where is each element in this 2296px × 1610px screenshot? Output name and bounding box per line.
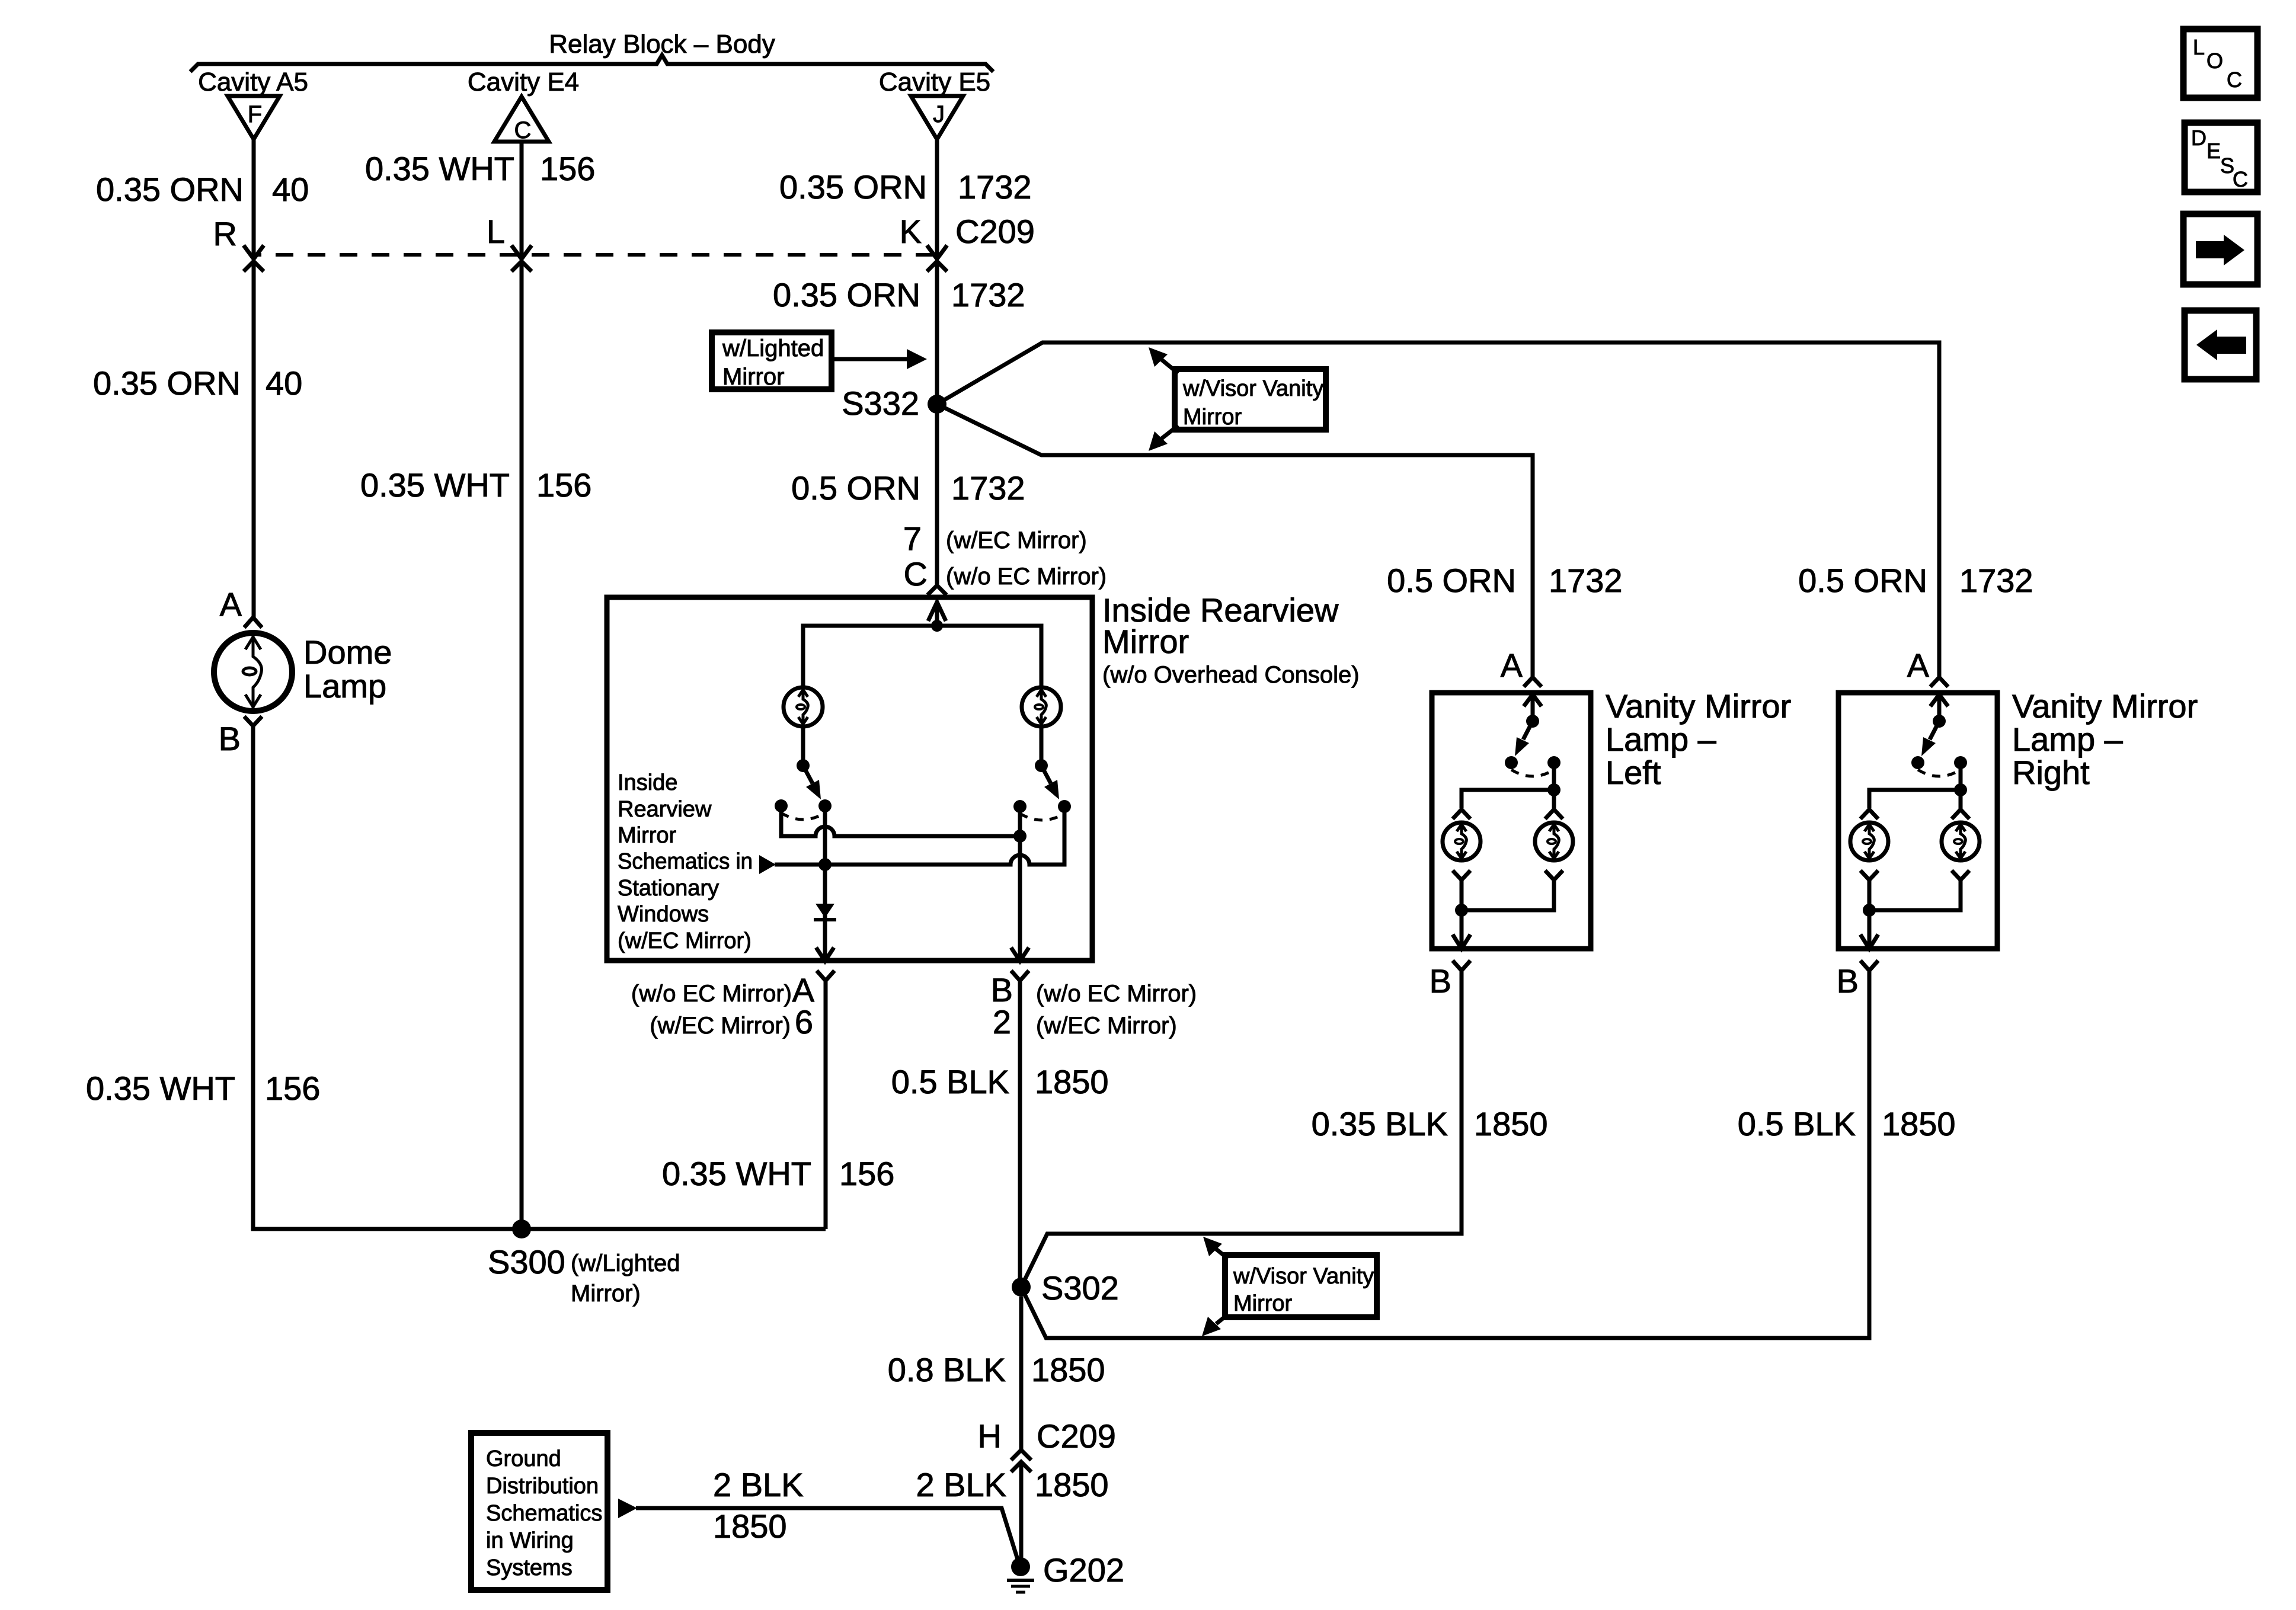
terminal chevron at mirror pin A xyxy=(817,971,834,981)
terminal chevron at mirror pin B xyxy=(1011,971,1029,981)
svg-text:(w/o EC Mirror): (w/o EC Mirror) xyxy=(631,981,792,1007)
svg-text:2 BLK: 2 BLK xyxy=(916,1466,1006,1503)
wire right bulb to bottom bus xyxy=(1869,880,1961,910)
wire right switch left contact down to pin B exit xyxy=(1018,806,1022,960)
wire from cavity A5/F down to connector C209 pin R xyxy=(252,139,256,258)
exit arrow inside box at pin B xyxy=(1011,948,1029,961)
bus to left bulb xyxy=(1462,790,1554,808)
svg-text:E: E xyxy=(2207,139,2221,163)
wire junction to exit B xyxy=(1460,910,1464,946)
svg-text:D: D xyxy=(2191,126,2207,150)
svg-text:0.5 ORN: 0.5 ORN xyxy=(1798,562,1927,599)
icon button LOC xyxy=(2183,29,2257,98)
svg-text:(w/o Overhead Console): (w/o Overhead Console) xyxy=(1102,662,1360,688)
vanity left internals xyxy=(1443,694,1573,949)
internal junction dot xyxy=(931,620,943,632)
entry arrow inside vanity left xyxy=(1524,694,1542,706)
svg-text:w/Visor Vanity: w/Visor Vanity xyxy=(1233,1264,1374,1289)
junction dot xyxy=(1547,783,1560,796)
svg-text:(w/Lighted: (w/Lighted xyxy=(571,1250,680,1276)
terminal chevron vanity left pin B xyxy=(1453,961,1470,971)
svg-text:1850: 1850 xyxy=(1035,1063,1109,1100)
left switch dashed arc xyxy=(781,813,825,820)
svg-text:0.35 BLK: 0.35 BLK xyxy=(1312,1105,1448,1142)
connector arrow at R (C209) xyxy=(244,245,264,259)
svg-text:1732: 1732 xyxy=(951,276,1025,313)
component box Inside Rearview Mirror xyxy=(607,597,1092,961)
svg-text:0.5 ORN: 0.5 ORN xyxy=(1387,562,1516,599)
callout box w/Visor Vanity Mirror (lower) xyxy=(1225,1255,1377,1317)
svg-text:Lamp: Lamp xyxy=(303,667,386,705)
switch contact dots xyxy=(1505,756,1518,769)
svg-text:C209: C209 xyxy=(1037,1417,1116,1455)
terminal chevron below right bulb xyxy=(1545,870,1563,880)
svg-text:0.5 BLK: 0.5 BLK xyxy=(1738,1105,1856,1142)
terminal chevron above left bulb xyxy=(1860,809,1878,819)
wire right contact down to junction xyxy=(1959,763,1963,790)
svg-text:1850: 1850 xyxy=(1882,1105,1956,1142)
svg-text:0.8 BLK: 0.8 BLK xyxy=(888,1351,1006,1388)
ground symbol G202 xyxy=(1007,1579,1034,1582)
svg-text:A: A xyxy=(220,585,242,623)
icon button forward arrow xyxy=(2183,214,2257,284)
svg-text:1850: 1850 xyxy=(713,1507,787,1545)
svg-text:Vanity Mirror: Vanity Mirror xyxy=(2012,687,2198,725)
connector chevron below L xyxy=(511,261,532,271)
svg-text:0.5 ORN: 0.5 ORN xyxy=(791,469,920,507)
svg-text:0.35 ORN: 0.35 ORN xyxy=(773,276,920,313)
svg-text:K: K xyxy=(900,213,922,250)
entry arrow inside mirror box at pin C xyxy=(928,602,946,621)
arrow from w/Lighted Mirror box to wire xyxy=(832,357,908,361)
svg-text:R: R xyxy=(213,215,237,252)
right switch dashed arc xyxy=(1020,814,1064,820)
junction dot bus1 / right switch left contact wire xyxy=(1013,830,1027,843)
switch pivot dot xyxy=(1933,715,1946,728)
terminal chevron above left bulb xyxy=(1453,809,1470,819)
wire right bulb to bottom bus xyxy=(1462,880,1554,910)
svg-text:F: F xyxy=(248,101,262,127)
connector arrow at K (C209) xyxy=(927,245,947,259)
svg-text:J: J xyxy=(933,101,945,127)
bottom junction dot xyxy=(1863,904,1876,917)
exit arrow inside vanity left xyxy=(1453,934,1470,949)
terminal chevron at dome lamp pin A xyxy=(244,617,262,628)
arrow from ground distribution box xyxy=(618,1499,637,1518)
svg-text:Cavity E4: Cavity E4 xyxy=(468,68,579,97)
svg-text:Right: Right xyxy=(2012,754,2090,791)
svg-text:Stationary: Stationary xyxy=(618,876,719,901)
wire from C209 L down to splice S300 xyxy=(520,261,524,1229)
svg-text:0.35 ORN: 0.35 ORN xyxy=(93,364,241,402)
svg-text:40: 40 xyxy=(266,364,302,402)
svg-text:C: C xyxy=(2233,167,2248,191)
wire branch from S332 up-right to vanity mirror lamp right xyxy=(937,343,1939,677)
wire junction to exit B xyxy=(1868,910,1872,946)
wire from cavity E4/C down to connector C209 pin L xyxy=(520,142,524,258)
svg-text:2: 2 xyxy=(993,1003,1011,1041)
mirror lamp bulb right xyxy=(1022,687,1061,726)
connector triangle J (Relay Block cavity E5) xyxy=(911,96,963,139)
svg-text:S332: S332 xyxy=(842,385,919,422)
connector arrow at L (C209) xyxy=(511,245,532,259)
arrow from upper w/Visor box to lower branch xyxy=(1162,425,1178,438)
svg-text:L: L xyxy=(2193,35,2205,59)
svg-text:156: 156 xyxy=(536,466,591,504)
svg-text:Mirror: Mirror xyxy=(618,823,677,848)
svg-text:Schematics in: Schematics in xyxy=(618,849,753,874)
wire entry to switch pivot xyxy=(1937,696,1942,721)
switch arm with arrowhead xyxy=(1930,721,1939,740)
connector triangle F (Relay Block cavity A5) xyxy=(228,96,280,139)
svg-text:G202: G202 xyxy=(1043,1551,1124,1589)
svg-text:B: B xyxy=(219,720,241,757)
svg-text:B: B xyxy=(1837,962,1859,1000)
svg-text:Mirror: Mirror xyxy=(1102,623,1189,660)
svg-text:156: 156 xyxy=(265,1070,320,1107)
svg-text:6: 6 xyxy=(795,1003,813,1041)
component box Vanity Mirror Lamp - Right xyxy=(1838,693,1997,949)
svg-text:1850: 1850 xyxy=(1474,1105,1548,1142)
wire from S300 up to inside rearview mirror pin A xyxy=(824,981,828,1229)
svg-text:1850: 1850 xyxy=(1035,1466,1109,1503)
svg-text:C: C xyxy=(904,555,928,593)
right switch pivot dot xyxy=(1035,759,1048,772)
svg-text:Ground: Ground xyxy=(486,1446,561,1471)
wire C209 H down to ground G202 xyxy=(1019,1462,1024,1561)
wire branch from S332 down-right to vanity mirror lamp left xyxy=(937,404,1533,677)
wire pin C to internal junction xyxy=(935,602,939,626)
switch dashed arc xyxy=(1918,770,1961,776)
connector chevron below R xyxy=(244,261,264,271)
svg-text:in Wiring: in Wiring xyxy=(486,1528,574,1553)
vanity right bulb 1 xyxy=(1850,822,1888,860)
arrow from lower w/Visor box to upper branch xyxy=(1216,1249,1228,1259)
terminal chevron vanity right pin A xyxy=(1930,677,1948,687)
terminal chevron above right bulb xyxy=(1545,809,1563,819)
svg-text:Lamp –: Lamp – xyxy=(2012,721,2124,758)
vanity right bulb 2 xyxy=(1942,822,1980,860)
triangle arrow feeding bus 2 (schematics reference) xyxy=(759,855,776,874)
wire S302 down to connector C209 pin H xyxy=(1019,1297,1024,1449)
wire 2 BLK from ground box to G202 xyxy=(636,1508,1019,1563)
vanity left bulb 2 xyxy=(1535,822,1573,860)
wire from S332 down to inside rearview mirror pin C xyxy=(935,404,939,585)
svg-text:Vanity Mirror: Vanity Mirror xyxy=(1606,687,1791,725)
svg-text:Rearview: Rearview xyxy=(618,797,712,822)
svg-text:(w/EC Mirror): (w/EC Mirror) xyxy=(650,1013,791,1039)
svg-text:1732: 1732 xyxy=(1959,562,2033,599)
switch contact dots xyxy=(1911,756,1924,769)
terminal chevron vanity right pin B xyxy=(1860,961,1878,971)
svg-text:156: 156 xyxy=(540,150,595,187)
brace bracket over relay block cavities xyxy=(190,55,993,72)
wire from C209 K down to splice S332 xyxy=(935,261,939,404)
exit arrow inside box at pin A xyxy=(816,948,834,961)
icon button DESC xyxy=(2185,123,2257,192)
svg-text:S302: S302 xyxy=(1041,1269,1119,1307)
svg-text:0.5 BLK: 0.5 BLK xyxy=(891,1063,1009,1100)
svg-text:Cavity A5: Cavity A5 xyxy=(198,68,308,97)
arrow from lower w/Visor box to lower branch xyxy=(1216,1314,1228,1324)
connector chevrons at H (C209) xyxy=(1011,1450,1031,1460)
svg-text:H: H xyxy=(978,1417,1002,1455)
bottom junction dot xyxy=(1455,904,1468,917)
svg-text:0.35 WHT: 0.35 WHT xyxy=(360,466,510,504)
svg-text:(w/o EC Mirror): (w/o EC Mirror) xyxy=(946,564,1107,590)
svg-text:C209: C209 xyxy=(955,213,1035,250)
svg-text:C: C xyxy=(2227,68,2242,92)
callout box w/Lighted Mirror xyxy=(712,332,832,390)
component box Vanity Mirror Lamp - Left xyxy=(1432,693,1591,949)
component box Ground Distribution Schematics in Wiring Systems xyxy=(471,1433,607,1590)
wire right contact down to junction xyxy=(1552,763,1556,790)
svg-text:A: A xyxy=(1907,646,1930,684)
connector C209 dashed line xyxy=(253,253,937,257)
svg-text:Mirror: Mirror xyxy=(1183,405,1242,430)
internal text block: Inside Rearview Mirror Schematics in Stationary Windows (w/EC Mirror) xyxy=(618,770,753,953)
splice S302 junction dot xyxy=(1012,1278,1031,1297)
entry arrow inside vanity right xyxy=(1930,694,1948,706)
wire junction to right bulb chevron xyxy=(1959,790,1963,809)
wire entry to switch pivot xyxy=(1531,696,1535,721)
svg-text:(w/EC Mirror): (w/EC Mirror) xyxy=(1036,1013,1177,1039)
connector triangle C (Relay Block cavity E4) xyxy=(494,97,549,142)
exit arrow inside vanity right xyxy=(1860,934,1878,949)
junction dot bus2 / left switch right contact wire xyxy=(818,858,832,871)
wire left switch right contact down through diode to pin A exit xyxy=(823,806,827,960)
svg-text:(w/EC Mirror): (w/EC Mirror) xyxy=(618,929,752,953)
svg-text:w/Lighted: w/Lighted xyxy=(722,335,824,361)
svg-text:0.35 WHT: 0.35 WHT xyxy=(365,150,514,187)
svg-text:Windows: Windows xyxy=(618,902,709,927)
svg-text:C: C xyxy=(514,117,532,143)
vanity left bulb 1 xyxy=(1443,822,1480,860)
terminal chevron at dome lamp pin B xyxy=(244,716,262,726)
svg-text:Dome: Dome xyxy=(303,633,392,671)
wire left bulb to bottom junction xyxy=(1868,880,1872,910)
diode on pin A wire xyxy=(816,904,834,918)
switch arm with arrowhead xyxy=(1523,721,1533,740)
svg-text:Mirror): Mirror) xyxy=(571,1281,641,1307)
right switch arm with arrowhead xyxy=(1041,766,1051,783)
wire from cavity E5/J down to connector C209 pin K xyxy=(935,139,939,258)
wire from C209 R down to dome lamp pin A xyxy=(252,261,256,617)
vanity right internals xyxy=(1850,694,1980,949)
left switch pivot dot xyxy=(797,759,810,772)
callout box w/Visor Vanity Mirror (upper) xyxy=(1175,369,1326,430)
switch pivot dot xyxy=(1526,715,1539,728)
svg-text:Left: Left xyxy=(1606,754,1661,791)
svg-text:Cavity E5: Cavity E5 xyxy=(879,68,990,97)
terminal chevron above right bulb xyxy=(1952,809,1969,819)
svg-text:2 BLK: 2 BLK xyxy=(713,1466,804,1503)
svg-text:Inside: Inside xyxy=(618,770,677,795)
terminal chevron vanity left pin A xyxy=(1524,677,1542,687)
wire bulb right to switch pivot xyxy=(1040,726,1044,766)
svg-text:0.35 WHT: 0.35 WHT xyxy=(662,1155,811,1192)
wire vanity left pin B down and left to splice S302 xyxy=(1021,971,1462,1287)
wire vanity right pin B down and left to splice S302 xyxy=(1021,971,1869,1338)
svg-text:Lamp –: Lamp – xyxy=(1606,721,1717,758)
svg-text:Systems: Systems xyxy=(486,1555,573,1580)
svg-text:156: 156 xyxy=(839,1155,894,1192)
svg-text:0.35 WHT: 0.35 WHT xyxy=(86,1070,235,1107)
terminal chevron below left bulb xyxy=(1453,870,1470,880)
svg-text:1732: 1732 xyxy=(951,469,1025,507)
svg-text:40: 40 xyxy=(272,171,309,208)
right switch contact dots xyxy=(1013,800,1027,813)
wire bulb left to switch pivot xyxy=(801,726,805,766)
svg-text:Schematics: Schematics xyxy=(486,1501,602,1526)
terminal chevron at mirror pin C xyxy=(928,585,946,595)
splice S300 junction dot xyxy=(512,1219,531,1238)
terminal chevron below right bulb xyxy=(1952,870,1969,880)
svg-text:w/Visor Vanity: w/Visor Vanity xyxy=(1182,376,1323,401)
svg-text:0.35 ORN: 0.35 ORN xyxy=(96,171,244,208)
wire from dome lamp B down and right to splice S300 xyxy=(253,726,826,1229)
svg-text:1732: 1732 xyxy=(958,168,1032,206)
svg-text:L: L xyxy=(487,213,505,250)
bus to left bulb xyxy=(1869,790,1961,808)
svg-text:(w/EC Mirror): (w/EC Mirror) xyxy=(946,527,1087,553)
svg-text:Distribution: Distribution xyxy=(486,1474,599,1499)
mirror lamp bulb left xyxy=(784,687,823,726)
internal bus 2: stationary-windows feed to right switch right contact with hop xyxy=(775,806,1064,865)
svg-text:Mirror: Mirror xyxy=(1233,1291,1293,1316)
wire left bulb to bottom junction xyxy=(1460,880,1464,910)
svg-text:1732: 1732 xyxy=(1549,562,1623,599)
left switch contact dots xyxy=(775,799,788,812)
junction dot xyxy=(1954,783,1967,796)
svg-text:A: A xyxy=(1501,646,1523,684)
internal bus 1: left switch left contact to right switch left contact, hop over wire xyxy=(781,806,1020,836)
icon button back arrow xyxy=(2185,311,2256,379)
ground G202 dot xyxy=(1011,1557,1030,1576)
svg-text:O: O xyxy=(2207,49,2223,73)
svg-text:1850: 1850 xyxy=(1031,1351,1105,1388)
wire junction to right bulb chevron xyxy=(1552,790,1556,809)
svg-text:S300: S300 xyxy=(488,1243,565,1281)
svg-text:7: 7 xyxy=(903,520,922,557)
connector chevron below K xyxy=(927,261,947,271)
dome lamp bulb xyxy=(214,633,292,711)
svg-text:B: B xyxy=(1430,962,1451,1000)
left switch arm with arrowhead xyxy=(803,766,813,783)
svg-text:(w/o EC Mirror): (w/o EC Mirror) xyxy=(1036,981,1197,1007)
arrow from upper w/Visor box to upper branch xyxy=(1162,360,1178,373)
svg-text:Mirror: Mirror xyxy=(722,364,784,390)
wire mirror pin B down to splice S302 xyxy=(1018,981,1022,1287)
switch dashed arc xyxy=(1511,770,1554,776)
splice S332 junction dot xyxy=(928,395,946,414)
terminal chevron below left bulb xyxy=(1860,870,1878,880)
svg-text:0.35 ORN: 0.35 ORN xyxy=(779,168,927,206)
internal top bus xyxy=(803,626,1041,687)
